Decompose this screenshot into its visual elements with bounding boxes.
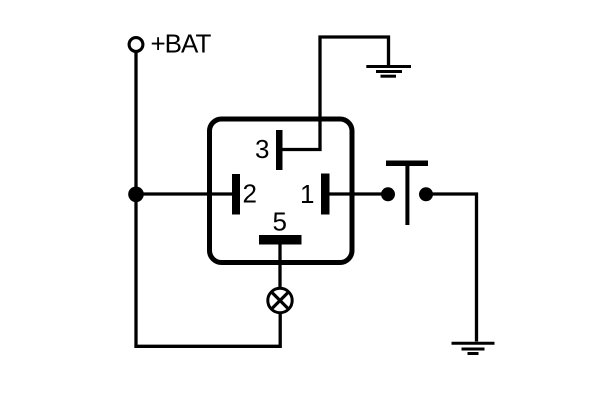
- svg-text:5: 5: [273, 207, 287, 237]
- svg-text:3: 3: [255, 134, 269, 164]
- svg-text:1: 1: [300, 179, 314, 209]
- svg-text:2: 2: [243, 178, 257, 208]
- svg-text:+BAT: +BAT: [151, 29, 212, 59]
